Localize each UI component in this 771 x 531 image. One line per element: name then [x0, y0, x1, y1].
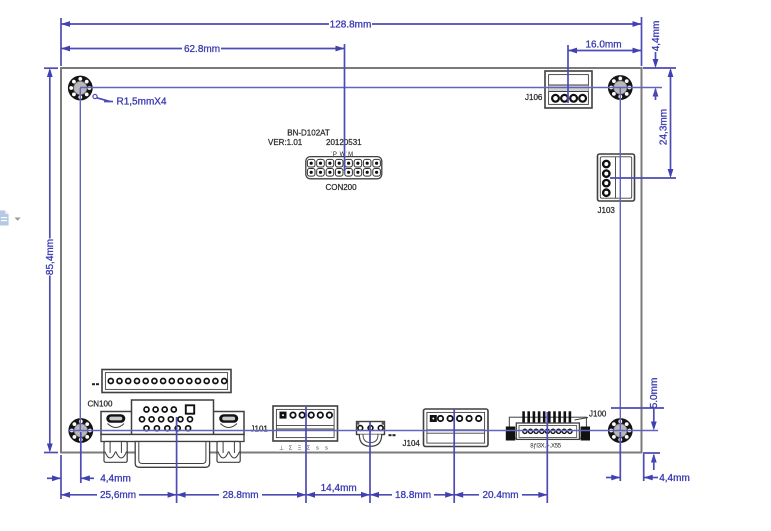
- connector J103: [598, 154, 635, 201]
- svg-text:25,6mm: 25,6mm: [100, 490, 136, 501]
- centerline through top mounting holes: [80, 87, 662, 89]
- svg-text:8ƒI3Χ․+․Χ55: 8ƒI3Χ․+․Χ55: [530, 444, 562, 450]
- connector J106: [545, 71, 592, 108]
- mounting hole bottom-left: [68, 418, 93, 443]
- connector CN100 (DB15 VGA): [101, 400, 244, 467]
- svg-text:VER:1.01: VER:1.01: [268, 138, 303, 147]
- dimension 18.8mm: [370, 490, 454, 501]
- svg-text:Σ: Σ: [289, 446, 293, 452]
- svg-text:62.8mm: 62.8mm: [184, 44, 220, 55]
- svg-text:Σ: Σ: [307, 446, 311, 452]
- 14-pin header above CN100: [102, 370, 231, 393]
- svg-text:16.0mm: 16.0mm: [585, 39, 621, 50]
- svg-text:85,4mm: 85,4mm: [45, 239, 56, 275]
- PCB board outline: [61, 68, 642, 453]
- svg-text:24,3mm: 24,3mm: [659, 109, 670, 145]
- extension line J102 center: [369, 422, 371, 503]
- mounting hole bottom-right: [608, 418, 633, 443]
- svg-text:J106: J106: [525, 93, 543, 102]
- svg-text:128.8mm: 128.8mm: [330, 19, 372, 30]
- centerline through bottom mounting holes: [68, 430, 658, 432]
- svg-text:28.8mm: 28.8mm: [222, 490, 258, 501]
- dimension 4.4mm (top right vertical): [643, 21, 676, 100]
- svg-text:J103: J103: [598, 206, 616, 215]
- svg-text:s: s: [325, 446, 328, 452]
- dimension 4.4mm (bottom left): [47, 432, 131, 485]
- dimension 16.0mm: [568, 39, 642, 103]
- connector J101: [273, 406, 338, 441]
- dimension 128.8mm: [61, 17, 642, 66]
- svg-text:20.4mm: 20.4mm: [482, 490, 518, 501]
- svg-text:J100: J100: [589, 409, 607, 418]
- svg-text:5.0mm: 5.0mm: [649, 378, 660, 409]
- svg-text:BN-D102AT: BN-D102AT: [287, 129, 330, 138]
- connector J100: [506, 411, 590, 440]
- dimension 20.4mm: [454, 490, 547, 501]
- svg-text:s: s: [316, 446, 319, 452]
- extension line J104 center: [453, 409, 455, 503]
- svg-text:18.8mm: 18.8mm: [395, 490, 431, 501]
- page icon (left margin): [0, 211, 9, 226]
- dropdown triangle: [15, 218, 21, 221]
- tiny pin labels under J101: [279, 445, 328, 452]
- polarity mark right of J102: [389, 434, 392, 436]
- svg-text:14,4mm: 14,4mm: [321, 483, 357, 494]
- dimension 25.6mm: [61, 490, 177, 501]
- svg-text:4,4mm: 4,4mm: [100, 474, 131, 485]
- extension line J100 center: [546, 412, 548, 503]
- extension line board left edge: [60, 455, 62, 499]
- svg-text:J101: J101: [251, 424, 269, 433]
- svg-text:⊥: ⊥: [279, 445, 284, 452]
- dimension 85.4mm: [44, 68, 58, 453]
- dimension 62.8mm: [61, 44, 345, 171]
- polarity mark: [92, 383, 95, 385]
- svg-text:CON200: CON200: [325, 183, 357, 192]
- leader R1.5mmX4: [93, 94, 167, 107]
- centerline joining right mounting holes: [619, 88, 621, 431]
- mounting hole top-left: [68, 76, 93, 101]
- centerline joining left mounting holes: [79, 88, 81, 431]
- dimension 28.8mm: [177, 490, 306, 501]
- connector CON200: [306, 157, 382, 179]
- svg-text:CN100: CN100: [88, 400, 113, 409]
- extension line CN100 center: [176, 417, 178, 503]
- connector J104: [424, 409, 489, 447]
- dimension 4.4mm (bottom right horizontal): [606, 432, 690, 484]
- svg-text:Ξ: Ξ: [298, 446, 302, 452]
- svg-text:4,4mm: 4,4mm: [651, 21, 662, 52]
- dimension 24.3mm: [610, 68, 676, 178]
- svg-text:R1,5mmX4: R1,5mmX4: [117, 97, 167, 108]
- connector J102 (3-pin): [357, 422, 385, 447]
- extension line J101 center: [305, 407, 307, 503]
- dimension 5.0mm (bottom right vertical): [611, 378, 664, 470]
- svg-text:4,4mm: 4,4mm: [659, 473, 690, 484]
- dimension 14.4mm: [306, 483, 370, 498]
- mounting hole top-right: [608, 75, 633, 100]
- svg-text:J104: J104: [403, 439, 421, 448]
